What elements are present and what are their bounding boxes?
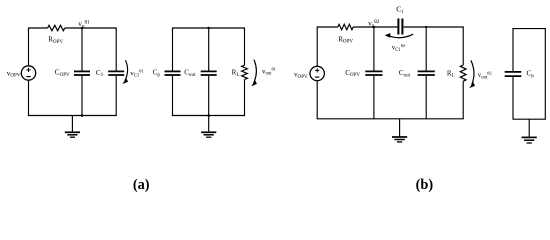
capacitor Cout (a) (201, 70, 217, 72)
wire left edge top (b) (316, 27, 318, 66)
capacitor COPV (a) (74, 70, 90, 72)
wire bottom (a1) (28, 115, 117, 117)
wire left edge bottom (a1) (28, 80, 30, 115)
wire left edge top (a1) (28, 28, 30, 66)
wire Cout branch lower (a2) (208, 76, 210, 116)
junction dot bottom mid (a2) (207, 114, 210, 117)
junction dot Cout top (b) (425, 26, 427, 28)
wire Cp branch lower (a2) (172, 76, 174, 116)
ground (a1) (65, 116, 80, 138)
arrow vC1 theta1 (122, 60, 128, 84)
wire top right (b) (403, 26, 463, 28)
wire RL branch upper (a2) (244, 28, 246, 65)
wire Cout branch upper (b) (425, 27, 427, 71)
ground (b) (392, 119, 407, 142)
wire COPV branch upper (a) (81, 28, 83, 71)
wire left edge bottom (b) (316, 81, 318, 119)
arrow vout theta2 (469, 60, 475, 88)
capacitor Cout (b) (418, 70, 435, 72)
resistor ROPV (b) (338, 24, 353, 29)
ground (b small) (522, 119, 537, 143)
wire Cout branch lower (b) (425, 76, 427, 119)
arrow vC1 theta2 (385, 33, 414, 38)
capacitor Cp (a) (165, 70, 181, 72)
resistor RL (a) (242, 65, 248, 79)
svg-text:(b): (b) (416, 177, 434, 193)
wire bottom (b small) (512, 118, 545, 120)
node vp theta2 junction dot (373, 26, 376, 29)
wire top left (a1) (28, 27, 48, 29)
wire right edge (b small) (544, 29, 546, 120)
wire top left (b) (317, 26, 338, 28)
resistor RL (b) (460, 65, 466, 81)
wire RL branch lower (b) (462, 81, 464, 119)
arrow vout theta1 (251, 60, 257, 87)
svg-text:(a): (a) (133, 177, 150, 193)
wire Cp branch lower (b small) (512, 76, 514, 119)
resistor ROPV (a) (48, 25, 65, 30)
wire bottom (b) (317, 118, 464, 120)
ground (a2) (201, 116, 216, 138)
wire Cp branch upper (b small) (512, 29, 514, 71)
capacitor COPV (b) (365, 70, 382, 72)
wire COPV branch lower (b) (373, 76, 375, 119)
wire C1 branch lower (a) (115, 76, 117, 116)
wire RL branch lower (a2) (244, 79, 246, 115)
wire top (b small) (512, 28, 545, 30)
capacitor C1 (a) (108, 70, 124, 72)
wire bottom (a2) (172, 115, 245, 117)
wire RL branch upper (b) (462, 27, 464, 65)
wire top right (a1) (65, 27, 117, 29)
junction dot top mid (a2) (207, 27, 210, 30)
node vp theta1 junction dot (81, 27, 84, 30)
wire C1 branch upper (a) (115, 28, 117, 71)
wire top (a2) (172, 27, 245, 29)
voltage source vOPV (a) (21, 66, 35, 80)
wire top mid (b) (353, 26, 397, 28)
capacitor C1 (b) series (397, 19, 399, 35)
wire Cout branch upper (a2) (208, 28, 210, 71)
junction dot COPV bottom (a) (81, 114, 84, 117)
voltage source vOPV (b) (310, 66, 324, 80)
wire Cp branch upper (a2) (172, 28, 174, 71)
capacitor Cp (b) (505, 71, 522, 73)
wire COPV branch lower (a) (81, 76, 83, 116)
wire COPV branch upper (b) (373, 27, 375, 71)
